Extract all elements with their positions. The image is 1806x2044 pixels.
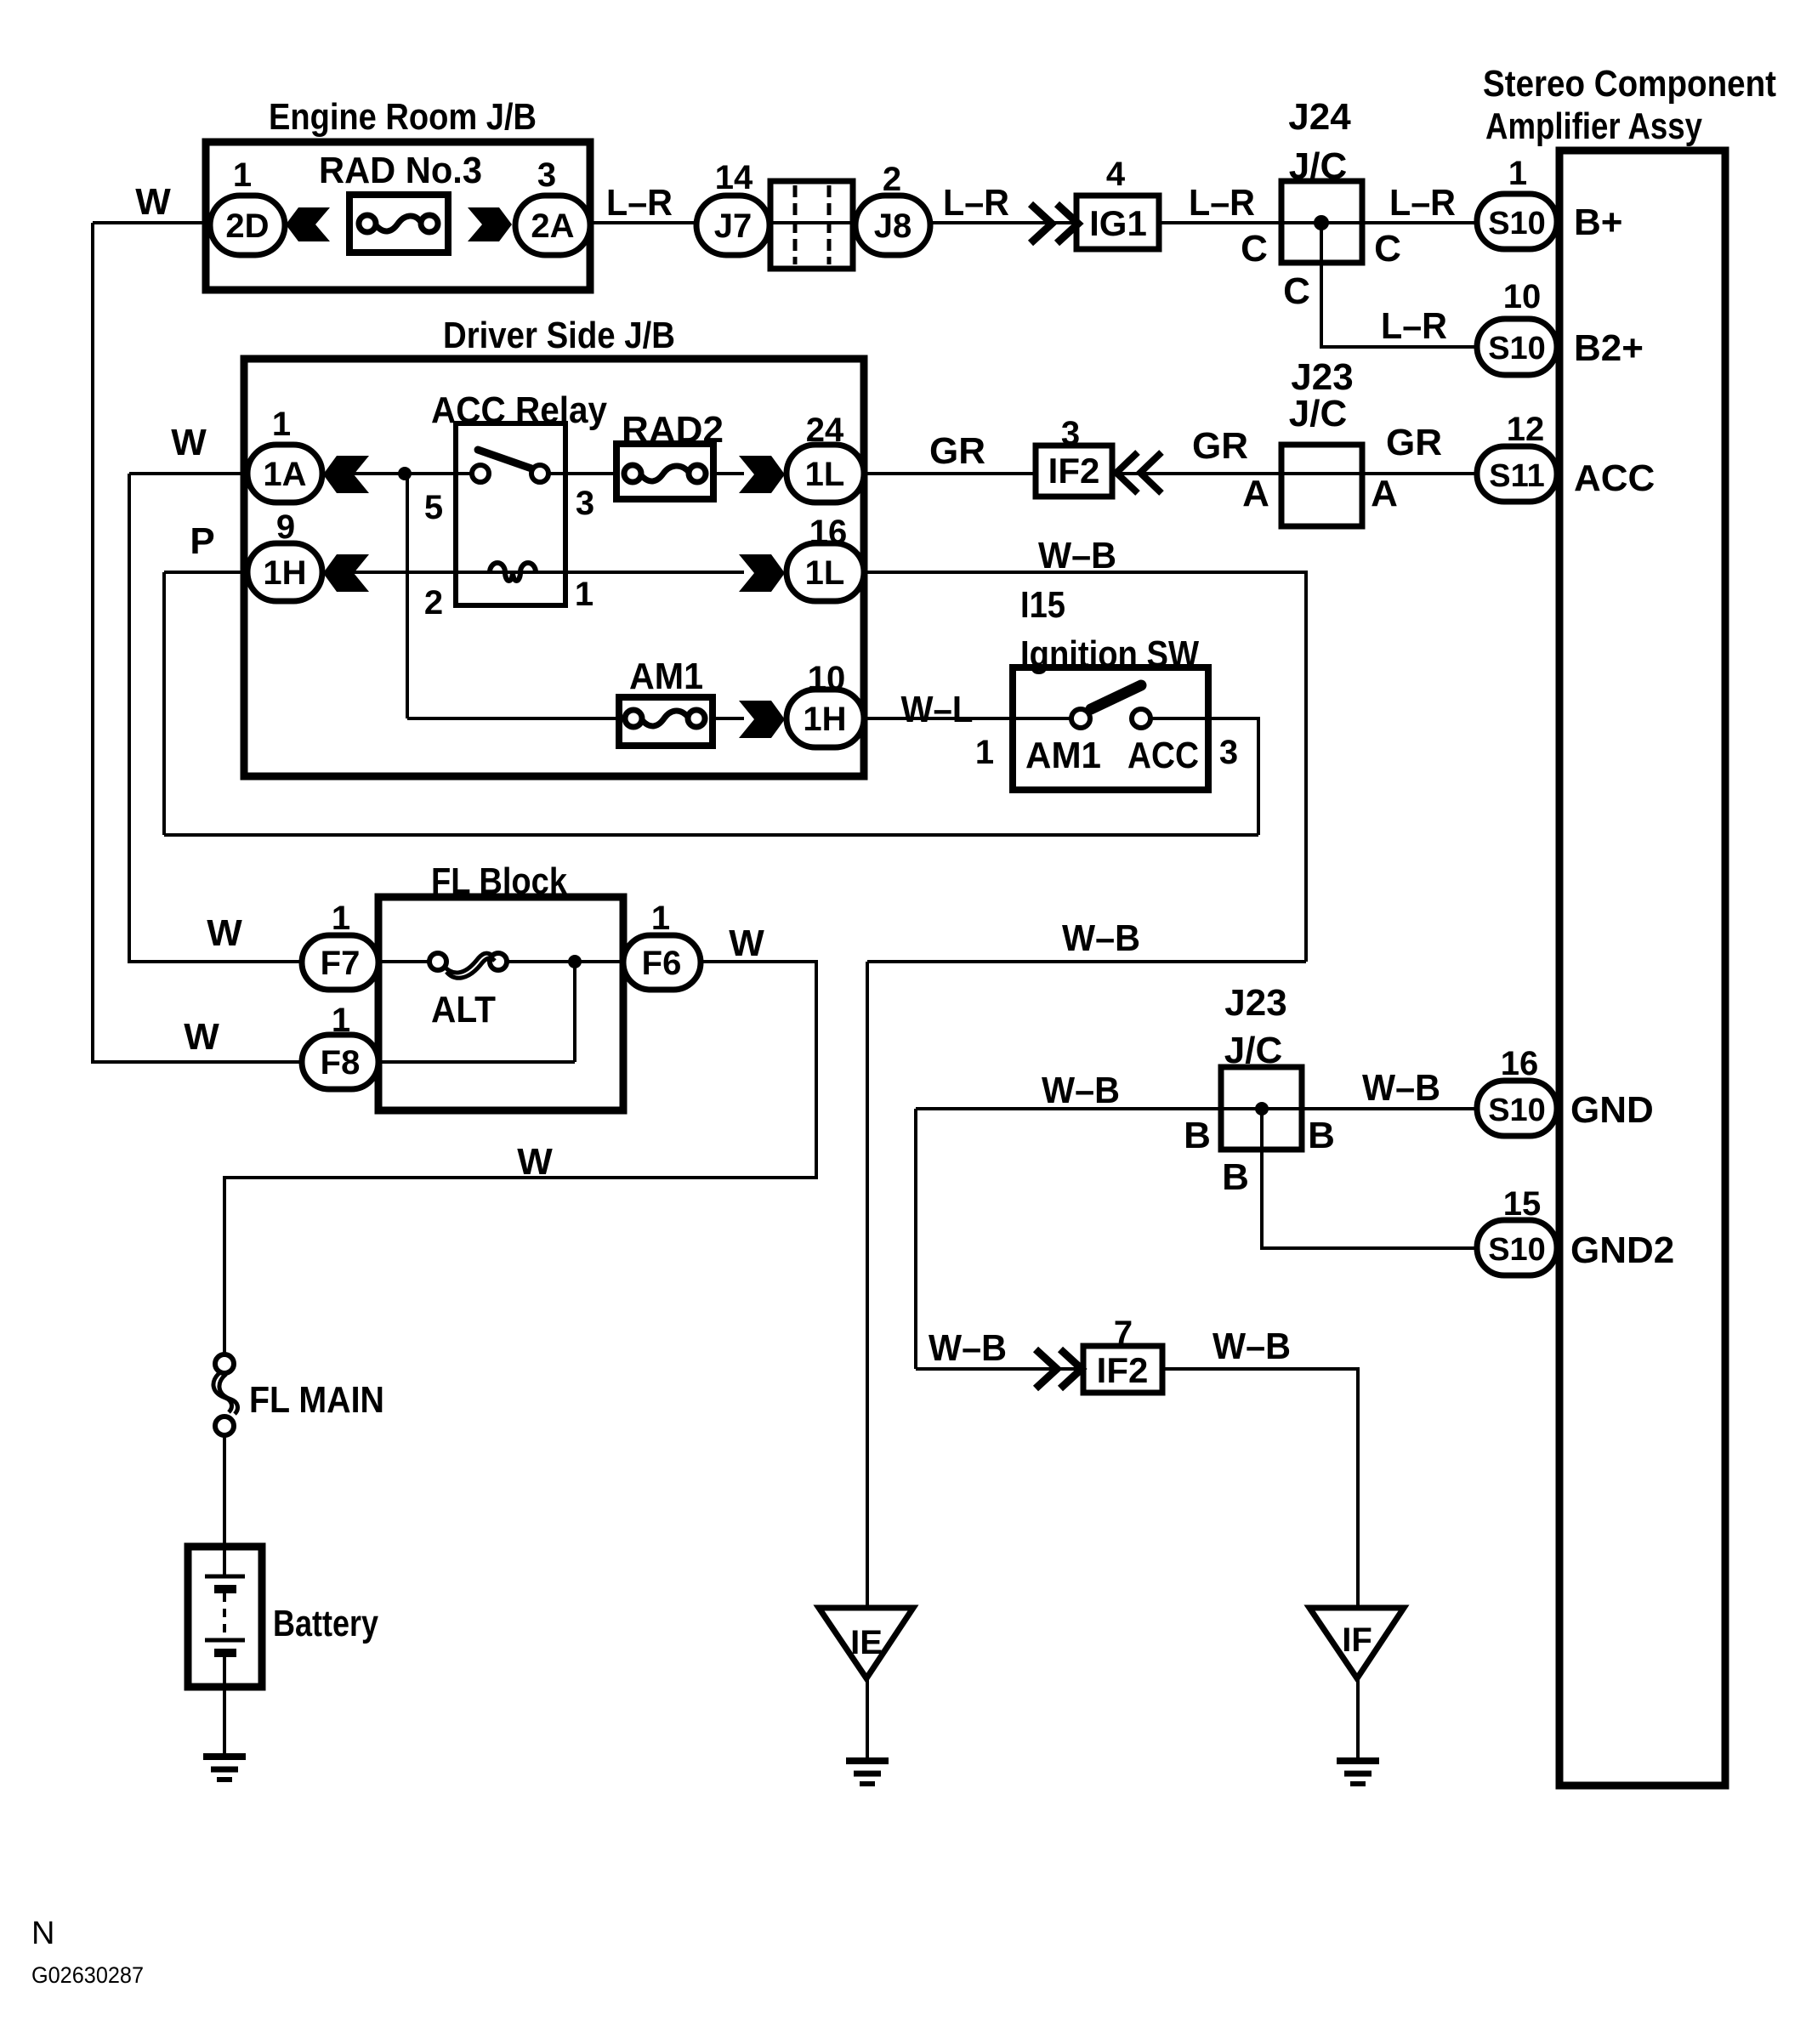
- svg-text:9: 9: [276, 508, 295, 546]
- svg-text:FL Block: FL Block: [431, 860, 567, 902]
- svg-text:10: 10: [808, 660, 846, 697]
- svg-text:S11: S11: [1489, 458, 1545, 494]
- svg-text:A: A: [1371, 473, 1398, 514]
- svg-text:1: 1: [233, 156, 252, 194]
- svg-text:IG1: IG1: [1089, 203, 1147, 243]
- svg-text:L–R: L–R: [1189, 182, 1255, 224]
- svg-text:C: C: [1283, 270, 1310, 312]
- svg-text:16: 16: [809, 514, 848, 551]
- svg-text:P: P: [190, 520, 214, 562]
- svg-text:W–L: W–L: [901, 689, 974, 730]
- svg-text:1L: 1L: [805, 456, 845, 493]
- svg-text:F8: F8: [321, 1044, 361, 1082]
- svg-text:B+: B+: [1574, 202, 1622, 243]
- svg-text:B2+: B2+: [1574, 327, 1644, 369]
- svg-text:J23: J23: [1224, 982, 1286, 1024]
- svg-text:L–R: L–R: [606, 182, 673, 224]
- svg-text:S10: S10: [1488, 1093, 1546, 1128]
- svg-text:12: 12: [1507, 411, 1545, 448]
- svg-text:J/C: J/C: [1224, 1030, 1282, 1071]
- svg-text:AM1: AM1: [1025, 735, 1101, 776]
- svg-text:W–B: W–B: [929, 1327, 1007, 1369]
- svg-text:J7: J7: [714, 207, 752, 245]
- svg-text:RAD No.3: RAD No.3: [319, 150, 482, 191]
- svg-text:1: 1: [332, 900, 350, 937]
- svg-text:C: C: [1241, 228, 1268, 270]
- svg-text:S10: S10: [1488, 331, 1546, 366]
- svg-text:1: 1: [975, 734, 994, 771]
- svg-text:GND: GND: [1570, 1089, 1654, 1131]
- svg-text:W–B: W–B: [1042, 1070, 1120, 1111]
- svg-text:N: N: [31, 1916, 54, 1951]
- svg-text:L–R: L–R: [943, 182, 1009, 224]
- svg-text:I15: I15: [1020, 584, 1065, 626]
- svg-text:L–R: L–R: [1381, 305, 1447, 347]
- svg-text:1: 1: [272, 406, 291, 443]
- svg-text:1: 1: [332, 1002, 350, 1039]
- svg-text:2: 2: [883, 161, 901, 198]
- svg-text:B: B: [1184, 1115, 1211, 1156]
- svg-text:W–B: W–B: [1213, 1326, 1291, 1367]
- svg-text:IE: IE: [850, 1624, 883, 1661]
- svg-text:1H: 1H: [263, 554, 306, 592]
- svg-text:F6: F6: [642, 945, 682, 982]
- svg-text:3: 3: [537, 156, 556, 194]
- svg-text:Stereo Component: Stereo Component: [1483, 63, 1776, 105]
- svg-text:1H: 1H: [803, 701, 846, 738]
- svg-text:GR: GR: [1192, 425, 1248, 467]
- svg-text:1A: 1A: [263, 456, 306, 493]
- svg-text:1L: 1L: [805, 554, 845, 592]
- svg-text:Ignition SW: Ignition SW: [1020, 633, 1199, 675]
- svg-text:W: W: [184, 1016, 219, 1058]
- svg-text:ALT: ALT: [431, 989, 496, 1031]
- svg-text:10: 10: [1503, 278, 1542, 315]
- svg-text:2: 2: [424, 584, 443, 622]
- svg-text:W–B: W–B: [1038, 535, 1116, 576]
- svg-text:A: A: [1242, 473, 1269, 514]
- svg-text:W: W: [171, 422, 207, 463]
- svg-text:14: 14: [715, 159, 753, 196]
- svg-text:3: 3: [1061, 415, 1080, 452]
- svg-text:5: 5: [424, 489, 443, 526]
- svg-text:7: 7: [1114, 1314, 1133, 1352]
- svg-text:2A: 2A: [531, 207, 574, 245]
- svg-text:Driver Side J/B: Driver Side J/B: [443, 315, 675, 356]
- svg-text:ACC Relay: ACC Relay: [431, 389, 607, 431]
- svg-text:3: 3: [1219, 734, 1238, 771]
- svg-text:W: W: [207, 912, 242, 954]
- svg-text:AM1: AM1: [629, 656, 703, 697]
- svg-text:1: 1: [651, 900, 670, 937]
- svg-text:ACC: ACC: [1127, 735, 1199, 776]
- svg-text:S10: S10: [1488, 1232, 1546, 1268]
- svg-text:S10: S10: [1488, 206, 1546, 241]
- svg-text:F7: F7: [321, 945, 361, 982]
- svg-text:IF2: IF2: [1048, 451, 1100, 491]
- svg-text:16: 16: [1501, 1045, 1539, 1082]
- svg-text:2D: 2D: [225, 207, 269, 245]
- svg-text:G02630287: G02630287: [31, 1962, 144, 1988]
- svg-text:B: B: [1222, 1156, 1249, 1198]
- svg-text:Amplifier Assy: Amplifier Assy: [1485, 105, 1702, 147]
- svg-text:W–B: W–B: [1362, 1067, 1440, 1109]
- svg-text:L–R: L–R: [1389, 182, 1456, 224]
- svg-text:4: 4: [1106, 156, 1126, 193]
- svg-text:W: W: [729, 923, 764, 964]
- svg-text:GND2: GND2: [1570, 1229, 1674, 1271]
- svg-text:1: 1: [575, 576, 593, 613]
- svg-text:Engine Room J/B: Engine Room J/B: [269, 96, 537, 138]
- svg-text:W: W: [135, 181, 171, 223]
- svg-text:C: C: [1374, 228, 1401, 270]
- svg-text:ACC: ACC: [1574, 457, 1655, 499]
- svg-text:Battery: Battery: [273, 1603, 378, 1644]
- svg-text:1: 1: [1508, 155, 1527, 192]
- svg-text:J23: J23: [1291, 356, 1353, 398]
- svg-text:J24: J24: [1288, 96, 1351, 138]
- svg-text:GR: GR: [1386, 422, 1442, 463]
- svg-text:IF: IF: [1342, 1621, 1372, 1659]
- svg-text:24: 24: [806, 412, 844, 449]
- svg-text:RAD2: RAD2: [622, 409, 724, 451]
- svg-text:3: 3: [576, 485, 594, 522]
- svg-text:IF2: IF2: [1097, 1350, 1149, 1390]
- svg-text:J/C: J/C: [1289, 145, 1347, 187]
- svg-text:B: B: [1308, 1115, 1335, 1156]
- svg-text:W: W: [517, 1141, 553, 1183]
- svg-text:GR: GR: [929, 430, 985, 472]
- svg-text:W–B: W–B: [1062, 917, 1140, 959]
- svg-text:15: 15: [1503, 1185, 1542, 1223]
- svg-text:J/C: J/C: [1289, 393, 1347, 434]
- svg-text:J8: J8: [874, 207, 912, 245]
- svg-text:FL MAIN: FL MAIN: [249, 1379, 384, 1421]
